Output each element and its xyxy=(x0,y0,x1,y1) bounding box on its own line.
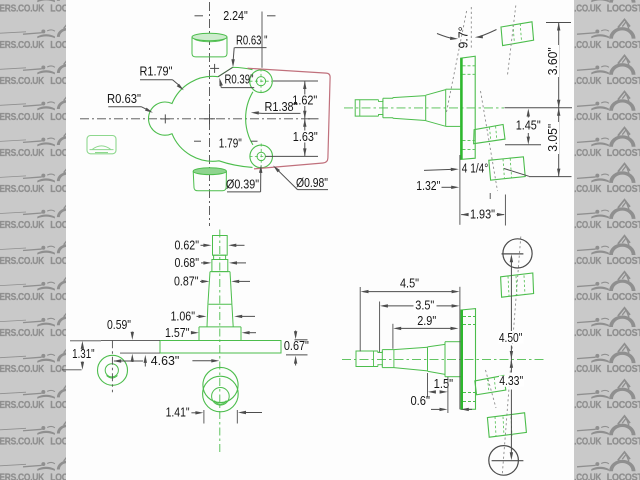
svg-text:LOCOSTB: LOCOSTB xyxy=(607,472,640,480)
svg-text:DERS.CO.UK: DERS.CO.UK xyxy=(0,364,45,375)
svg-text:.CO.UK: .CO.UK xyxy=(574,76,602,87)
svg-text:DERS.CO.UK: DERS.CO.UK xyxy=(0,40,45,51)
svg-text:0.6": 0.6" xyxy=(410,393,430,408)
svg-text:LOCOSTB: LOCOSTB xyxy=(607,364,640,375)
svg-text:3.05": 3.05" xyxy=(545,123,560,151)
svg-text:DERS.CO.UK: DERS.CO.UK xyxy=(0,112,45,123)
svg-text:LOC: LOC xyxy=(50,328,68,339)
svg-text:DERS.CO.UK: DERS.CO.UK xyxy=(0,76,45,87)
svg-text:1.06": 1.06" xyxy=(171,308,196,323)
svg-text:0.62": 0.62" xyxy=(175,237,200,252)
svg-text:LOCOSTB: LOCOSTB xyxy=(607,4,640,15)
svg-text:LOCOSTB: LOCOSTB xyxy=(607,184,640,195)
svg-text:LOC: LOC xyxy=(50,4,68,15)
svg-text:.CO.UK: .CO.UK xyxy=(574,292,602,303)
svg-text:LOCOSTB: LOCOSTB xyxy=(607,112,640,123)
svg-text:1.31": 1.31" xyxy=(72,346,95,361)
svg-text:DERS.CO.UK: DERS.CO.UK xyxy=(0,184,45,195)
svg-text:.CO.UK: .CO.UK xyxy=(574,328,602,339)
svg-text:LOC: LOC xyxy=(50,148,68,159)
svg-text:4.33": 4.33" xyxy=(499,373,523,388)
svg-text:LOCOSTB: LOCOSTB xyxy=(607,76,640,87)
svg-text:R1.79": R1.79" xyxy=(140,64,173,79)
svg-text:1.79": 1.79" xyxy=(219,135,242,150)
svg-text:1.57": 1.57" xyxy=(165,325,190,340)
svg-text:.CO.UK: .CO.UK xyxy=(574,220,602,231)
svg-text:.CO.UK: .CO.UK xyxy=(574,148,602,159)
svg-text:4.50": 4.50" xyxy=(499,330,523,345)
svg-text:R0.63": R0.63" xyxy=(107,91,141,106)
svg-text:LOC: LOC xyxy=(50,400,68,411)
svg-text:4.63": 4.63" xyxy=(151,353,180,368)
svg-text:DERS.CO.UK: DERS.CO.UK xyxy=(0,256,45,267)
svg-text:LOCOSTB: LOCOSTB xyxy=(607,400,640,411)
svg-text:R0.63 ": R0.63 " xyxy=(236,33,268,48)
svg-text:DERS.CO.UK: DERS.CO.UK xyxy=(0,4,45,15)
svg-text:LOC: LOC xyxy=(50,184,68,195)
svg-text:2.24": 2.24" xyxy=(223,8,248,23)
svg-text:1.32": 1.32" xyxy=(416,178,440,193)
svg-text:1.63": 1.63" xyxy=(293,129,318,144)
svg-text:LOC: LOC xyxy=(50,76,68,87)
svg-text:LOCOSTB: LOCOSTB xyxy=(607,256,640,267)
svg-text:3.5": 3.5" xyxy=(415,298,434,313)
svg-text:LOCOSTB: LOCOSTB xyxy=(607,220,640,231)
svg-text:LOC: LOC xyxy=(50,256,68,267)
svg-text:0.59": 0.59" xyxy=(107,317,131,332)
svg-text:DERS.CO.UK: DERS.CO.UK xyxy=(0,328,45,339)
svg-text:LOC: LOC xyxy=(50,472,68,480)
svg-text:LOC: LOC xyxy=(50,220,68,231)
svg-text:DERS.CO.UK: DERS.CO.UK xyxy=(0,148,45,159)
svg-text:.CO.UK: .CO.UK xyxy=(574,400,602,411)
svg-text:LOCOSTB: LOCOSTB xyxy=(607,40,640,51)
svg-text:DERS.CO.UK: DERS.CO.UK xyxy=(0,472,45,480)
svg-text:.CO.UK: .CO.UK xyxy=(574,40,602,51)
svg-text:.CO.UK: .CO.UK xyxy=(574,472,602,480)
svg-text:.CO.UK: .CO.UK xyxy=(574,436,602,447)
svg-text:.CO.UK: .CO.UK xyxy=(574,112,602,123)
svg-text:1.93": 1.93" xyxy=(470,206,495,221)
svg-text:1.62": 1.62" xyxy=(292,92,317,107)
svg-text:LOCOSTB: LOCOSTB xyxy=(607,328,640,339)
svg-text:2.9": 2.9" xyxy=(417,313,436,328)
svg-text:Ø0.98": Ø0.98" xyxy=(296,175,328,190)
svg-text:4.5": 4.5" xyxy=(400,276,419,291)
svg-text:.CO.UK: .CO.UK xyxy=(574,4,602,15)
svg-text:.CO.UK: .CO.UK xyxy=(574,184,602,195)
svg-text:1.45": 1.45" xyxy=(516,117,541,132)
svg-text:1.41": 1.41" xyxy=(166,405,190,420)
svg-text:LOC: LOC xyxy=(50,436,68,447)
svg-text:.CO.UK: .CO.UK xyxy=(574,364,602,375)
svg-text:LOCOSTB: LOCOSTB xyxy=(607,436,640,447)
svg-text:DERS.CO.UK: DERS.CO.UK xyxy=(0,292,45,303)
svg-text:LOC: LOC xyxy=(50,112,68,123)
svg-text:Ø0.39": Ø0.39" xyxy=(226,177,259,192)
svg-text:DERS.CO.UK: DERS.CO.UK xyxy=(0,400,45,411)
svg-text:0.87": 0.87" xyxy=(174,273,199,288)
svg-text:LOCOSTB: LOCOSTB xyxy=(607,292,640,303)
svg-text:3.60": 3.60" xyxy=(545,47,560,75)
svg-text:4 1/4°: 4 1/4° xyxy=(462,161,489,176)
svg-text:0.68": 0.68" xyxy=(175,255,200,270)
svg-text:DERS.CO.UK: DERS.CO.UK xyxy=(0,220,45,231)
svg-text:R0.39": R0.39" xyxy=(225,72,254,87)
svg-text:LOCOSTB: LOCOSTB xyxy=(607,148,640,159)
svg-text:LOC: LOC xyxy=(50,40,68,51)
svg-text:DERS.CO.UK: DERS.CO.UK xyxy=(0,436,45,447)
svg-text:9.7°: 9.7° xyxy=(455,27,470,49)
svg-text:1.5": 1.5" xyxy=(434,376,454,391)
svg-text:LOC: LOC xyxy=(50,292,68,303)
svg-text:.CO.UK: .CO.UK xyxy=(574,256,602,267)
